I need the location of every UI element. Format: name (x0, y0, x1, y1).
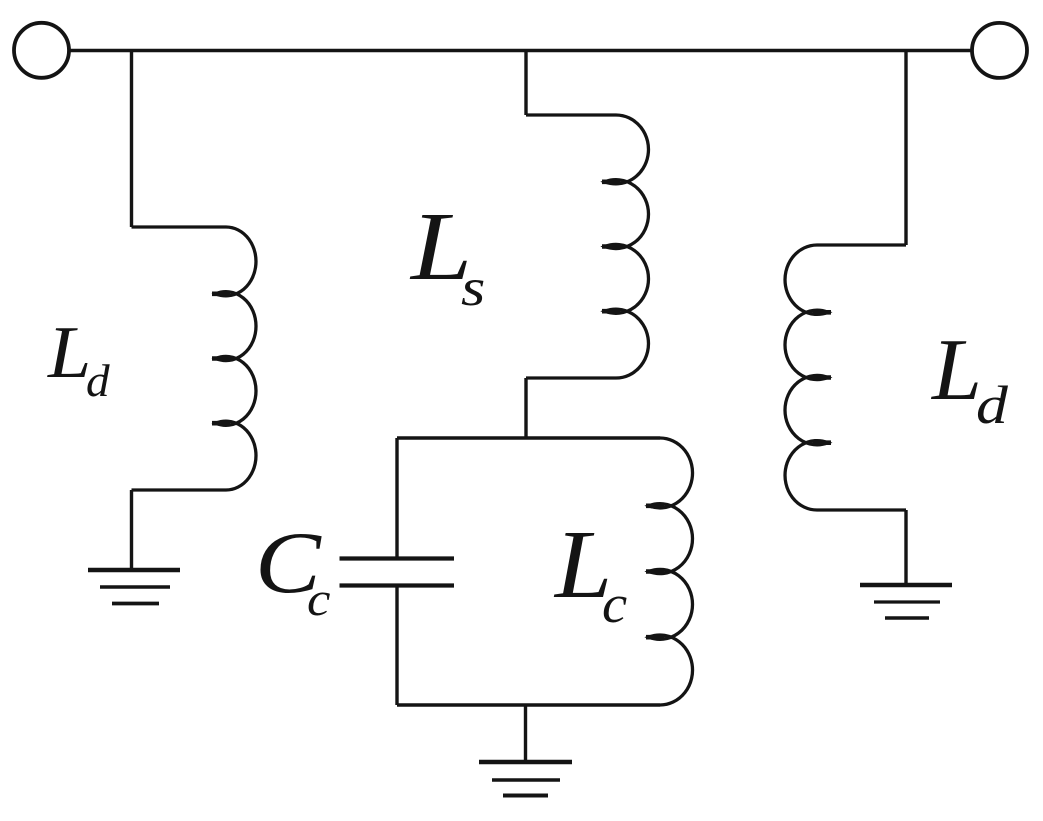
top wire (66, 49, 974, 52)
terminal left (14, 23, 69, 78)
inductor L_s (526, 115, 648, 378)
inductor L_d left (132, 227, 256, 490)
ground left (88, 570, 180, 604)
wire middle branch vertical lower (524, 378, 527, 438)
wire right branch vertical (904, 51, 907, 246)
ground right (860, 585, 952, 618)
label L_d right (931, 327, 933, 375)
inductor L_c (646, 438, 693, 705)
wire capacitor bottom lead (395, 587, 398, 705)
capacitor C_c (340, 559, 455, 586)
wire capacitor top lead (395, 438, 398, 557)
label L_c (554, 516, 556, 564)
terminal right (972, 23, 1027, 78)
wire left ground stub (130, 490, 133, 570)
inductor L_d right (785, 245, 906, 510)
wire left branch vertical (130, 51, 133, 228)
wire tank bottom rail (397, 703, 660, 706)
label L_s (410, 198, 412, 246)
wire middle branch vertical top (524, 51, 527, 116)
wire tank top rail (397, 436, 660, 439)
label L_d left (47, 316, 49, 364)
wire middle ground stub (524, 705, 527, 762)
wire right ground stub (904, 510, 907, 585)
ground middle (479, 762, 572, 796)
label C_c (254, 520, 256, 568)
